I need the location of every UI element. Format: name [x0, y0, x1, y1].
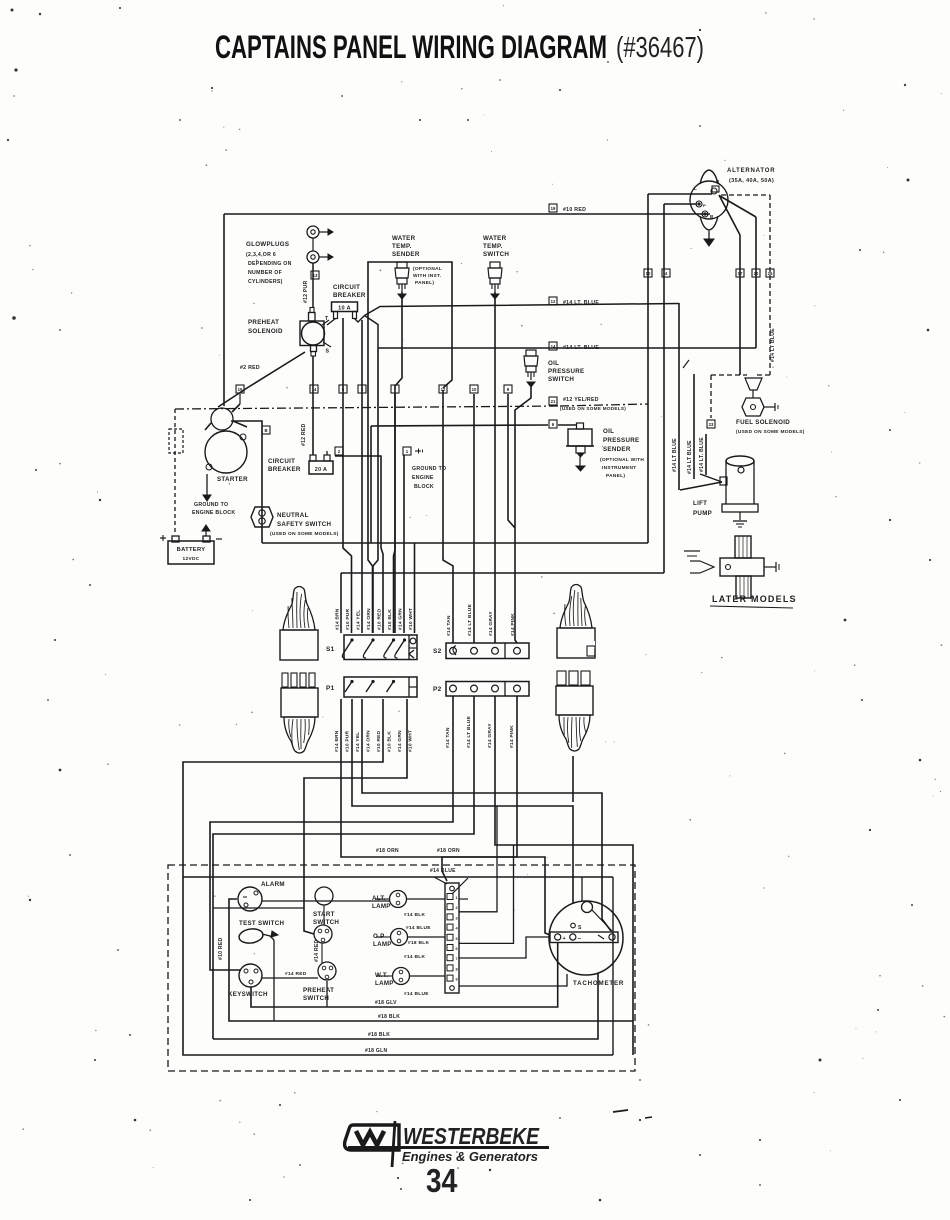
svg-text:#14 LT BLUE: #14 LT BLUE	[672, 438, 678, 472]
svg-text:WESTERBEKE: WESTERBEKE	[403, 1123, 540, 1149]
svg-text:#14 LT. BLUE: #14 LT. BLUE	[563, 345, 599, 351]
svg-text:#14 GRAY: #14 GRAY	[488, 611, 494, 636]
svg-text:#14 PINK: #14 PINK	[509, 725, 515, 748]
svg-text:(#36467): (#36467)	[616, 32, 704, 64]
svg-text:TEMP.: TEMP.	[483, 243, 503, 250]
svg-text:BREAKER: BREAKER	[333, 292, 366, 299]
svg-text:KEYSWITCH: KEYSWITCH	[228, 991, 268, 998]
svg-text:7: 7	[456, 957, 458, 961]
svg-text:S: S	[326, 349, 330, 355]
svg-text:15: 15	[238, 387, 243, 392]
svg-text:−: −	[578, 937, 582, 943]
svg-text:#14 BLK: #14 BLK	[404, 954, 426, 960]
svg-text:#10 RED: #10 RED	[218, 937, 224, 960]
svg-text:10 A: 10 A	[338, 306, 351, 312]
svg-text:#18 BLK: #18 BLK	[408, 940, 430, 946]
svg-text:6: 6	[456, 947, 458, 951]
svg-text:S1: S1	[326, 646, 335, 653]
svg-text:21: 21	[551, 399, 556, 404]
svg-text:SENDER: SENDER	[603, 446, 631, 453]
svg-text:#12 RED: #12 RED	[301, 423, 307, 446]
svg-text:#14 GRN: #14 GRN	[398, 608, 404, 630]
svg-text:P2: P2	[433, 686, 442, 693]
svg-text:P1: P1	[326, 685, 335, 692]
svg-text:NUMBER OF: NUMBER OF	[248, 270, 282, 276]
svg-text:9: 9	[456, 978, 458, 982]
svg-text:#14 YEL: #14 YEL	[356, 610, 362, 630]
svg-text:PANEL): PANEL)	[415, 280, 434, 286]
svg-text:17: 17	[738, 271, 743, 276]
svg-text:SAFETY SWITCH: SAFETY SWITCH	[277, 521, 332, 528]
svg-text:SOLENOID: SOLENOID	[248, 328, 283, 335]
svg-text:ENGINE BLOCK: ENGINE BLOCK	[192, 510, 235, 516]
svg-text:ENGINE: ENGINE	[412, 475, 434, 481]
svg-text:LATER MODELS: LATER MODELS	[712, 594, 797, 604]
svg-text:12VDC: 12VDC	[183, 556, 200, 562]
svg-text:WITH INST.: WITH INST.	[413, 273, 441, 279]
svg-text:B: B	[710, 214, 714, 219]
svg-text:#18 BLK: #18 BLK	[368, 1032, 390, 1038]
svg-text:OIL: OIL	[548, 360, 559, 367]
svg-text:#14 TAN: #14 TAN	[446, 615, 452, 636]
svg-text:BATTERY: BATTERY	[177, 547, 206, 553]
svg-text:(OPTIONAL: (OPTIONAL	[413, 266, 442, 272]
svg-text:#12 PUR: #12 PUR	[303, 280, 309, 303]
svg-text:#14 ORN: #14 ORN	[366, 730, 372, 752]
svg-text:#2 RED: #2 RED	[240, 365, 260, 371]
svg-text:#14 BRN: #14 BRN	[334, 730, 340, 752]
svg-text:GROUND TO: GROUND TO	[412, 466, 446, 472]
svg-text:12: 12	[551, 299, 556, 304]
svg-text:10: 10	[472, 387, 477, 392]
svg-text:#14 RED: #14 RED	[285, 971, 307, 977]
svg-text:S2: S2	[433, 648, 442, 655]
svg-text:PREHEAT: PREHEAT	[303, 987, 334, 994]
svg-text:#14 BRN: #14 BRN	[335, 608, 341, 630]
svg-text:L: L	[694, 186, 697, 191]
svg-text:INSTRUMENT: INSTRUMENT	[602, 465, 636, 471]
svg-text:CAPTAINS PANEL WIRING DIAGRAM: CAPTAINS PANEL WIRING DIAGRAM	[215, 29, 607, 65]
svg-text:#10 RED: #10 RED	[377, 608, 383, 630]
svg-text:PREHEAT: PREHEAT	[248, 319, 279, 326]
svg-text:2: 2	[456, 906, 458, 910]
svg-text:(USED ON SOME MODELS): (USED ON SOME MODELS)	[560, 406, 626, 411]
svg-text:(USED ON SOME MODELS): (USED ON SOME MODELS)	[736, 429, 805, 435]
svg-text:CIRCUIT: CIRCUIT	[268, 458, 295, 465]
svg-text:ALARM: ALARM	[261, 881, 285, 888]
svg-text:#14 GRN: #14 GRN	[397, 730, 403, 752]
svg-text:CIRCUIT: CIRCUIT	[333, 284, 360, 291]
svg-text:SWITCH: SWITCH	[483, 251, 509, 258]
svg-text:#10 BLK: #10 BLK	[387, 731, 393, 752]
svg-text:1: 1	[456, 896, 458, 900]
svg-text:#14 BLUE: #14 BLUE	[406, 925, 431, 931]
svg-text:#18 GLN: #18 GLN	[365, 1048, 387, 1054]
svg-text:#14 LT BLUE: #14 LT BLUE	[687, 440, 693, 474]
svg-text:#14 ORN: #14 ORN	[366, 608, 372, 630]
svg-text:LIFT: LIFT	[693, 500, 707, 507]
svg-text:T: T	[325, 316, 329, 322]
svg-text:SWITCH: SWITCH	[548, 376, 574, 383]
svg-text:#12 YEL/RED: #12 YEL/RED	[563, 397, 599, 403]
svg-text:3: 3	[456, 916, 458, 920]
svg-text:B: B	[264, 428, 267, 433]
svg-text:#10 WHT: #10 WHT	[408, 608, 414, 630]
svg-text:SWITCH: SWITCH	[303, 995, 329, 1002]
svg-text:#18 BLK: #18 BLK	[378, 1014, 400, 1020]
svg-text:13: 13	[313, 273, 318, 278]
svg-text:DEPENDING ON: DEPENDING ON	[248, 261, 292, 267]
svg-text:CYLINDERS): CYLINDERS)	[248, 279, 283, 285]
svg-text:10: 10	[646, 271, 651, 276]
svg-text:PRESSURE: PRESSURE	[603, 437, 639, 444]
svg-text:WATER: WATER	[392, 235, 416, 242]
svg-text:#14 YEL: #14 YEL	[355, 732, 361, 752]
svg-text:+: +	[563, 936, 567, 942]
svg-text:#10 RED: #10 RED	[563, 207, 586, 213]
svg-text:#10 PUR: #10 PUR	[345, 730, 351, 752]
svg-text:PANEL): PANEL)	[606, 473, 625, 479]
svg-text:ALTERNATOR: ALTERNATOR	[727, 168, 775, 174]
svg-text:#14 BLUE: #14 BLUE	[404, 991, 429, 997]
svg-text:GLOWPLUGS: GLOWPLUGS	[246, 241, 289, 248]
svg-text:#18 GLV: #18 GLV	[375, 1000, 397, 1006]
svg-text:#18 ORN: #18 ORN	[437, 848, 460, 854]
svg-text:5: 5	[456, 937, 458, 941]
svg-text:34: 34	[426, 1162, 458, 1199]
svg-text:Engines & Generators: Engines & Generators	[402, 1150, 538, 1164]
svg-text:S: S	[578, 925, 582, 931]
svg-text:R: R	[716, 179, 720, 184]
svg-text:OIL: OIL	[603, 428, 614, 435]
svg-text:GROUND TO: GROUND TO	[194, 502, 228, 508]
svg-text:SENDER: SENDER	[392, 251, 420, 258]
svg-text:23: 23	[709, 422, 714, 427]
svg-text:PUMP: PUMP	[693, 510, 712, 517]
svg-text:BREAKER: BREAKER	[268, 466, 301, 473]
svg-text:19: 19	[551, 206, 556, 211]
svg-text:BLOCK: BLOCK	[414, 484, 434, 490]
svg-text:WATER: WATER	[483, 235, 507, 242]
svg-text:TEMP.: TEMP.	[392, 243, 412, 250]
svg-text:#10 RED: #10 RED	[376, 730, 382, 752]
svg-text:(OPTIONAL WITH: (OPTIONAL WITH	[600, 457, 644, 463]
svg-text:14: 14	[551, 344, 556, 349]
svg-text:TEST SWITCH: TEST SWITCH	[239, 920, 284, 927]
svg-text:#14 TAN: #14 TAN	[445, 727, 451, 748]
svg-text:#14 BLK: #14 BLK	[404, 912, 426, 918]
svg-text:PRESSURE: PRESSURE	[548, 368, 584, 375]
svg-text:LAMP: LAMP	[373, 941, 392, 948]
svg-text:(2,3,4,OR 6: (2,3,4,OR 6	[246, 252, 276, 258]
svg-text:#14 RED: #14 RED	[314, 939, 320, 962]
svg-text:#10 PUR: #10 PUR	[345, 608, 351, 630]
svg-text:#10 WHT: #10 WHT	[408, 730, 414, 752]
svg-text:#14 LT BLUE: #14 LT BLUE	[467, 603, 473, 636]
svg-text:14: 14	[312, 387, 317, 392]
svg-text:#14 LT BLUE: #14 LT BLUE	[466, 715, 472, 748]
svg-text:FUEL SOLENOID: FUEL SOLENOID	[736, 419, 790, 426]
svg-text:P: P	[703, 203, 706, 208]
svg-text:#14 LT. BLUE: #14 LT. BLUE	[699, 437, 705, 472]
svg-text:20 A: 20 A	[315, 467, 327, 473]
svg-text:LAMP: LAMP	[372, 903, 391, 910]
svg-text:LAMP: LAMP	[375, 980, 394, 987]
svg-text:#14 LT BLUE: #14 LT BLUE	[770, 328, 776, 362]
svg-text:#18 ORN: #18 ORN	[376, 848, 399, 854]
svg-text:20: 20	[754, 271, 759, 276]
svg-text:(USED ON SOME MODELS): (USED ON SOME MODELS)	[270, 531, 339, 537]
svg-text:#14 BLUE: #14 BLUE	[430, 868, 456, 874]
svg-text:#14 GRAY: #14 GRAY	[487, 723, 493, 748]
svg-text:8: 8	[456, 967, 458, 971]
svg-text:NEUTRAL: NEUTRAL	[277, 512, 309, 519]
svg-text:#14 PINK: #14 PINK	[510, 613, 516, 636]
svg-text:STARTER: STARTER	[217, 476, 248, 483]
svg-text:#10 BLK: #10 BLK	[387, 609, 393, 630]
svg-text:(35A, 40A, 50A): (35A, 40A, 50A)	[729, 178, 774, 184]
